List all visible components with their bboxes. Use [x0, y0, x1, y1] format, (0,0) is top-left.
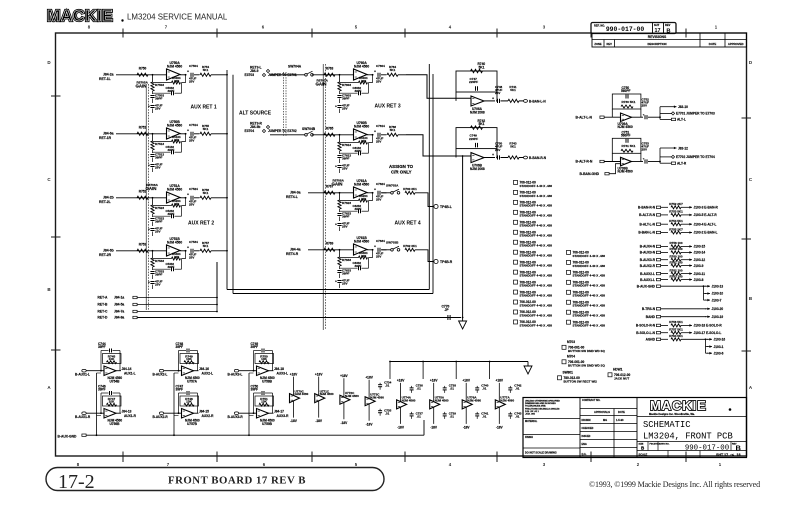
svg-text:R763: R763 — [326, 67, 334, 71]
page label stadium — [46, 468, 384, 491]
svg-text:STANDOFF 4-40 X .438: STANDOFF 4-40 X .438 — [520, 244, 553, 248]
svg-text:25V: 25V — [189, 80, 194, 84]
svg-text:R7503: R7503 — [155, 83, 164, 87]
svg-text:ALT-L: ALT-L — [677, 118, 686, 122]
svg-text:+: + — [374, 188, 376, 192]
svg-text:R754 5K1: R754 5K1 — [669, 219, 683, 223]
wire output — [269, 370, 274, 372]
wire alt input 2 — [270, 134, 305, 136]
wire output — [180, 250, 187, 252]
node J103-2 E-BAN-L — [687, 232, 692, 234]
svg-text:B-AUX1-L: B-AUX1-L — [75, 372, 90, 376]
wire feedback return — [182, 134, 186, 142]
wire output — [194, 412, 199, 414]
svg-text:J103-9: J103-9 — [694, 264, 704, 268]
svg-text:39PF: 39PF — [155, 97, 163, 101]
svg-text:+: + — [492, 153, 494, 157]
ground — [462, 318, 464, 322]
wire input — [86, 412, 104, 414]
svg-text:B-ALT-R-N: B-ALT-R-N — [576, 160, 593, 164]
svg-text:R769: R769 — [326, 242, 334, 246]
wire GAIN bus (left, dashed) — [145, 84, 147, 310]
svg-text:B-TRS-N: B-TRS-N — [642, 307, 656, 311]
wire output — [180, 74, 187, 76]
svg-text:LM3204, FRONT PCB: LM3204, FRONT PCB — [643, 432, 733, 442]
op-amp U756B — [104, 409, 116, 419]
svg-text:25V: 25V — [189, 256, 194, 260]
svg-text:APPROVED: APPROVED — [728, 42, 744, 46]
test point TP4B-R — [434, 259, 438, 263]
svg-text:STANDOFF 4-40 X .438: STANDOFF 4-40 X .438 — [573, 314, 606, 318]
title block outline — [523, 398, 747, 458]
svg-text:25V: 25V — [376, 255, 381, 259]
svg-text:B-AUX2-R: B-AUX2-R — [640, 264, 656, 268]
svg-text:AUX RET 3: AUX RET 3 — [375, 104, 401, 110]
svg-text:RET-2R: RET-2R — [99, 253, 112, 257]
svg-text:220PF: 220PF — [469, 137, 478, 141]
sheet cell — [652, 23, 654, 34]
svg-text:TP4B-R: TP4B-R — [440, 260, 453, 264]
svg-text:E3704: E3704 — [245, 129, 255, 133]
wire — [661, 214, 668, 216]
wire feedback drop — [339, 135, 341, 142]
svg-text:R7623: R7623 — [342, 201, 351, 205]
svg-text:STANDOFF 4-40 X .438: STANDOFF 4-40 X .438 — [573, 284, 606, 288]
svg-text:R5705A: R5705A — [137, 81, 149, 85]
svg-text:DESCRIPTION: DESCRIPTION — [647, 42, 666, 46]
svg-text:U756B: U756B — [110, 422, 121, 426]
svg-text:B-AUX1-L: B-AUX1-L — [640, 278, 655, 282]
node J103-17 E-SOLO-L — [687, 332, 692, 334]
hardware standoff item 9 — [514, 260, 518, 264]
svg-text:J103-13: J103-13 — [712, 284, 724, 288]
right border zone ticks — [742, 117, 752, 119]
svg-text:E3703: E3703 — [245, 73, 255, 77]
resistor R748 — [180, 396, 199, 406]
wire — [661, 232, 668, 234]
wire — [661, 259, 668, 261]
svg-text:.01: .01 — [385, 383, 390, 387]
svg-text:STANDOFF 4-40 X .438: STANDOFF 4-40 X .438 — [520, 284, 553, 288]
svg-text:-18V: -18V — [430, 426, 438, 430]
svg-text:AUX RET 2: AUX RET 2 — [188, 221, 214, 227]
wire aux gnd bus — [86, 434, 424, 436]
svg-text:NJM 4560: NJM 4560 — [402, 399, 416, 403]
resistor R731 — [612, 138, 641, 153]
svg-text:39PF: 39PF — [155, 273, 163, 277]
svg-text:STANDOFF 4-40 X .438: STANDOFF 4-40 X .438 — [573, 294, 606, 298]
resistor R745 — [103, 354, 122, 364]
svg-text:R750: R750 — [139, 67, 147, 71]
wire — [661, 251, 668, 253]
svg-text:J103-15: J103-15 — [694, 245, 706, 249]
svg-text:R7523: R7523 — [155, 206, 164, 210]
svg-text:-18V: -18V — [341, 421, 349, 425]
svg-text:ALT-R: ALT-R — [677, 162, 687, 166]
svg-text:R756 5K1: R756 5K1 — [669, 320, 683, 324]
svg-text:R5708A: R5708A — [333, 179, 345, 183]
resistor R747 — [103, 396, 122, 406]
svg-text:NJM 4560: NJM 4560 — [295, 392, 309, 396]
op-amp U754B — [104, 366, 116, 376]
svg-text:U757A: U757A — [187, 379, 198, 383]
svg-text:R752 2K7: R752 2K7 — [669, 202, 683, 206]
svg-text:.01: .01 — [482, 415, 487, 419]
node junction — [339, 134, 341, 136]
svg-text:NJM 4560: NJM 4560 — [500, 399, 514, 403]
svg-text:J83-12: J83-12 — [678, 146, 688, 150]
svg-text:B-BAN-R-N: B-BAN-R-N — [529, 156, 547, 160]
svg-text:NJM 4560: NJM 4560 — [435, 399, 449, 403]
svg-text:J103-6: J103-6 — [714, 351, 724, 355]
svg-text:J103-11: J103-11 — [694, 272, 706, 276]
svg-text:E7702 JUMPER TO E7704: E7702 JUMPER TO E7704 — [676, 155, 715, 159]
svg-text:+18V: +18V — [315, 372, 323, 376]
svg-text:25V: 25V — [495, 91, 500, 95]
hardware standoff item 20 — [567, 290, 571, 294]
svg-text:STANDOFF 4-40 X .438: STANDOFF 4-40 X .438 — [520, 293, 553, 297]
svg-text:B-AUX-GND: B-AUX-GND — [637, 284, 656, 288]
svg-text:NJM 4560: NJM 4560 — [354, 239, 369, 243]
svg-text:B-AUX3-R: B-AUX3-R — [640, 258, 656, 262]
svg-text:M704: M704 — [567, 354, 575, 358]
svg-text:J103-10: J103-10 — [712, 292, 724, 296]
svg-text:AUX3-R: AUX3-R — [277, 414, 290, 418]
svg-text:AUX3-L: AUX3-L — [277, 371, 289, 375]
wire — [661, 332, 668, 334]
wire — [661, 279, 668, 281]
wire ground run — [138, 317, 462, 319]
wire feedback drop — [152, 134, 154, 141]
svg-text:RET-D: RET-D — [98, 316, 109, 320]
node J103-11 — [687, 273, 692, 275]
svg-text:J103-17 E-SOLO-L: J103-17 E-SOLO-L — [694, 331, 722, 335]
wire feedback drop — [339, 193, 341, 200]
svg-text:J84-18: J84-18 — [274, 367, 284, 371]
svg-text:-18V: -18V — [366, 422, 374, 426]
svg-text:+18V: +18V — [397, 379, 405, 383]
svg-text:R755 2K7: R755 2K7 — [669, 227, 683, 231]
svg-text:R757 5K1: R757 5K1 — [669, 328, 683, 332]
svg-text:STANDOFF 4-40 X .438: STANDOFF 4-40 X .438 — [520, 234, 553, 238]
svg-text:25V: 25V — [155, 230, 161, 234]
svg-text:J103-12: J103-12 — [694, 258, 706, 262]
node B-AUX3-L — [234, 369, 238, 372]
wire input — [164, 370, 182, 372]
node junction — [152, 197, 154, 199]
svg-text:39PF: 39PF — [155, 220, 163, 224]
svg-text:NJM 4560: NJM 4560 — [167, 123, 182, 127]
wire input — [239, 370, 257, 372]
node J83-12 — [672, 147, 677, 149]
svg-text:R751: R751 — [139, 126, 147, 130]
svg-text:REV: REV — [607, 42, 613, 46]
hardware standoff item 6 — [514, 230, 518, 234]
svg-text:R7613: R7613 — [342, 143, 351, 147]
svg-text:NJM 4560: NJM 4560 — [167, 240, 182, 244]
node J103-7 — [704, 299, 707, 301]
node B-AUX2-L — [159, 369, 163, 372]
node junction — [339, 192, 341, 194]
svg-text:NJM 4560: NJM 4560 — [167, 64, 182, 68]
svg-text:J103-19: J103-19 — [712, 315, 724, 319]
svg-text:SCALE: SCALE — [639, 453, 648, 457]
svg-text:B-AUX-GND: B-AUX-GND — [58, 434, 77, 438]
svg-text:-18V: -18V — [496, 426, 504, 430]
svg-text:J84-17: J84-17 — [274, 409, 284, 413]
svg-text:J103-20: J103-20 — [712, 307, 724, 311]
svg-text:U754B: U754B — [110, 379, 121, 383]
left border zone ticks — [51, 95, 61, 97]
svg-text:25V: 25V — [342, 282, 348, 286]
svg-text:R762 3K1: R762 3K1 — [403, 244, 417, 248]
node J103-18 E-SOLO-R — [687, 324, 692, 326]
wire output — [632, 161, 644, 163]
wire feedback return — [369, 193, 373, 201]
svg-text:B-ALT-R-N: B-ALT-R-N — [639, 213, 656, 217]
hardware standoff item 17 — [567, 260, 571, 264]
svg-text:DO NOT SCALE DRAWING: DO NOT SCALE DRAWING — [525, 452, 557, 455]
svg-text:B: B — [736, 444, 742, 453]
svg-text:STANDOFF 4-40 X .438: STANDOFF 4-40 X .438 — [573, 254, 606, 258]
hardware standoff item 23 — [567, 320, 571, 324]
wire to test point — [415, 250, 434, 262]
svg-text:STANDOFF 4-40 X .438: STANDOFF 4-40 X .438 — [520, 313, 553, 317]
svg-text:AUX2-R: AUX2-R — [202, 414, 215, 418]
svg-text:BUTTON SW DMD WD SQ: BUTTON SW DMD WD SQ — [568, 349, 605, 353]
node J103-1 — [706, 346, 709, 348]
svg-text:+18V: +18V — [496, 379, 504, 383]
svg-text:25V: 25V — [189, 139, 194, 143]
svg-text:39PF: 39PF — [342, 157, 350, 161]
svg-text:RET-B: RET-B — [98, 303, 109, 307]
svg-text:ENG: ENG — [582, 443, 587, 446]
svg-text:AUX1-R: AUX1-R — [124, 414, 137, 418]
wire — [138, 311, 218, 313]
resistor R749 — [180, 354, 199, 364]
svg-text:.01: .01 — [385, 411, 390, 415]
wire GAIN bus (middle, dashed) — [322, 64, 324, 330]
svg-text:J84-7a: J84-7a — [114, 310, 124, 314]
node junction — [152, 133, 154, 135]
svg-text:J103-18 E-SOLO-R: J103-18 E-SOLO-R — [694, 324, 723, 328]
svg-text:.01: .01 — [417, 415, 422, 419]
svg-text:SHT: SHT — [654, 23, 660, 27]
hardware standoff item 11 — [514, 280, 518, 284]
resistor R750 — [255, 354, 274, 364]
wire output — [367, 192, 374, 194]
switch SW704B — [305, 134, 308, 137]
svg-text:LM3204 SERVICE MANUAL: LM3204 SERVICE MANUAL — [127, 13, 228, 22]
svg-text:+: + — [187, 246, 189, 250]
wire input — [308, 249, 354, 251]
svg-text:Q.A.: Q.A. — [582, 453, 587, 456]
svg-text:RET-C: RET-C — [98, 310, 109, 314]
svg-text:+: + — [335, 165, 337, 169]
wire output — [632, 116, 644, 118]
node J103-9 — [687, 265, 692, 267]
svg-text:Mackie Designs Inc. Woodinvi: Mackie Designs Inc. Woodinville, Wa. — [649, 412, 695, 416]
svg-text:39PF: 39PF — [155, 156, 163, 160]
node B-AUX3-R — [234, 412, 238, 415]
bottom border zone ticks — [122, 452, 124, 463]
size / fscm / dwg no. row — [647, 442, 649, 451]
svg-text:B-AUX2-L: B-AUX2-L — [640, 272, 655, 276]
svg-text:ZONE: ZONE — [594, 42, 601, 46]
svg-text:R7603: R7603 — [342, 83, 351, 87]
svg-text:J103-1: J103-1 — [714, 345, 724, 349]
svg-text:NJM 4560: NJM 4560 — [345, 394, 359, 398]
wire output — [116, 412, 121, 414]
svg-text:SW704A: SW704A — [288, 65, 302, 69]
node junctions on buses — [226, 74, 228, 76]
wire output — [484, 157, 495, 159]
svg-text:1-5-93: 1-5-93 — [616, 418, 624, 422]
svg-text:39PF: 39PF — [342, 215, 350, 219]
svg-text:©1993, ©1999 Mackie Designs In: ©1993, ©1999 Mackie Designs Inc. All rig… — [589, 480, 760, 489]
svg-text:B-AUX3-R: B-AUX3-R — [228, 415, 244, 419]
svg-text:+: + — [187, 193, 189, 197]
resistor R751 — [255, 396, 274, 406]
wire — [661, 324, 668, 326]
svg-text:R7513: R7513 — [155, 142, 164, 146]
wire input feed — [406, 135, 471, 156]
svg-text:R753 5K1: R753 5K1 — [669, 210, 683, 214]
hardware standoff item 15 — [514, 320, 518, 324]
node J103-16 — [706, 338, 709, 340]
svg-text:R7633: R7633 — [342, 258, 351, 262]
svg-text:JUMPER TO E3702: JUMPER TO E3702 — [268, 129, 297, 133]
wire feedback return — [182, 198, 186, 206]
svg-text:B-BAN-L-N: B-BAN-L-N — [638, 231, 655, 235]
rev cell — [663, 23, 665, 34]
wire gnd input — [609, 164, 621, 174]
wire input — [604, 116, 621, 118]
svg-text:+: + — [492, 96, 494, 100]
svg-text:.01: .01 — [450, 387, 455, 391]
svg-text:R753: R753 — [139, 243, 147, 247]
svg-text:DATE: DATE — [618, 410, 625, 414]
node ALT-L — [671, 118, 675, 120]
svg-text:.01: .01 — [515, 387, 520, 391]
wire — [661, 223, 668, 225]
node junction — [152, 74, 154, 76]
svg-text:STANDOFF 4-40 X .438: STANDOFF 4-40 X .438 — [520, 264, 553, 268]
hardware standoff item 4 — [514, 210, 518, 214]
svg-text:SCHEMATIC: SCHEMATIC — [643, 420, 691, 430]
svg-text:J103-14: J103-14 — [694, 251, 706, 255]
svg-text:B-AUX3-L: B-AUX3-L — [228, 372, 243, 376]
svg-text:+18V: +18V — [462, 379, 470, 383]
svg-text:STANDOFF 4-40 X .438: STANDOFF 4-40 X .438 — [520, 274, 553, 278]
wire output — [367, 249, 374, 251]
svg-text:STANDOFF 4-40 X .438: STANDOFF 4-40 X .438 — [520, 214, 553, 218]
svg-text:BAND: BAND — [646, 315, 656, 319]
svg-text:JACK NUT: JACK NUT — [614, 376, 629, 380]
svg-text:+18V: +18V — [340, 374, 348, 378]
wire input feed — [406, 75, 471, 98]
svg-text:J103-7: J103-7 — [712, 298, 722, 302]
svg-text:NJM 4560: NJM 4560 — [354, 124, 369, 128]
op-amp U757B — [182, 409, 194, 419]
svg-text:ASSIGN TO: ASSIGN TO — [389, 164, 414, 169]
svg-text:39PF: 39PF — [342, 97, 350, 101]
svg-text:J103-16: J103-16 — [714, 338, 726, 342]
svg-text:-18V: -18V — [463, 426, 471, 430]
svg-text:RET-1L: RET-1L — [99, 77, 111, 81]
svg-text:5K1: 5K1 — [203, 191, 209, 195]
hardware standoff item 12 — [514, 290, 518, 294]
svg-text:REVISIONS: REVISIONS — [648, 35, 667, 39]
svg-text:.XXX .005: .XXX .005 — [525, 414, 536, 416]
svg-text:STANDOFF 4-40 X .438: STANDOFF 4-40 X .438 — [520, 323, 553, 327]
svg-text:J84-15: J84-15 — [199, 409, 209, 413]
svg-text:560PF: 560PF — [621, 89, 630, 93]
wire feedback return — [369, 75, 373, 83]
node J103-8 — [687, 279, 692, 281]
wire input — [308, 192, 354, 194]
wire feedback return — [369, 250, 373, 258]
wire input — [312, 134, 354, 136]
svg-text:MG: MG — [603, 418, 607, 422]
wire input — [116, 133, 167, 135]
svg-text:C7504: C7504 — [189, 64, 198, 68]
wire output — [367, 74, 374, 76]
svg-text:-18V: -18V — [397, 426, 405, 430]
wire — [661, 265, 668, 267]
wire input — [164, 412, 182, 414]
hardware standoff item 16 — [567, 250, 571, 254]
svg-text:+18V: +18V — [365, 375, 373, 379]
wire input — [116, 74, 167, 76]
svg-text:25V: 25V — [342, 225, 348, 229]
svg-text:NJM 4560: NJM 4560 — [370, 395, 384, 399]
svg-text:REV: REV — [665, 23, 671, 27]
svg-text:STANDOFF 4-40 X .438: STANDOFF 4-40 X .438 — [573, 324, 606, 328]
svg-text:NJM 4560: NJM 4560 — [354, 64, 369, 68]
svg-text:MACKIE: MACKIE — [650, 398, 707, 413]
op-amp U759B — [257, 409, 269, 419]
node B-AUX1-R — [82, 412, 86, 415]
wire box bottom pair — [227, 289, 429, 291]
svg-text:RET4-R: RET4-R — [286, 252, 299, 256]
svg-text:J103-3 E-BAN-R: J103-3 E-BAN-R — [694, 206, 719, 210]
svg-text:MATERIAL: MATERIAL — [525, 420, 538, 423]
svg-text:C7524: C7524 — [189, 187, 198, 191]
hardware standoff item 21 — [567, 300, 571, 304]
wire output — [180, 197, 187, 199]
svg-text:25V: 25V — [342, 107, 348, 111]
svg-text:E7701 JUMPER TO E7703: E7701 JUMPER TO E7703 — [676, 112, 715, 116]
wire — [138, 297, 218, 299]
hardware standoff item 5 — [514, 220, 518, 224]
svg-text:FINISH: FINISH — [525, 436, 533, 439]
ground (spare bus) — [527, 362, 529, 367]
hardware standoff item 8 — [514, 250, 518, 254]
svg-text:J84-4a: J84-4a — [290, 248, 301, 252]
svg-text:APPROVALS: APPROVALS — [594, 410, 610, 414]
svg-text:J103-2 E-BAN-L: J103-2 E-BAN-L — [694, 231, 718, 235]
node J103-5 E-ALT-R — [687, 214, 692, 216]
svg-text:B-SOLO-L-N: B-SOLO-L-N — [636, 331, 655, 335]
wire output — [367, 134, 374, 136]
svg-text:RET-2L: RET-2L — [99, 200, 111, 204]
svg-text:-18V: -18V — [290, 419, 298, 423]
svg-text:25V: 25V — [642, 148, 648, 152]
svg-text:+: + — [374, 70, 376, 74]
svg-text:.01: .01 — [417, 387, 422, 391]
wire input — [312, 74, 354, 76]
